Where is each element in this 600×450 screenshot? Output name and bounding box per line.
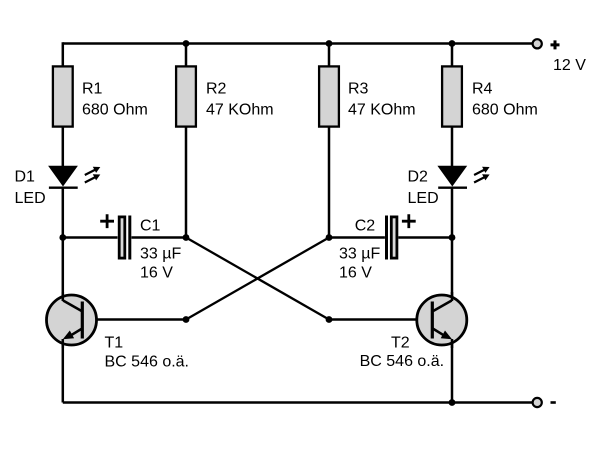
svg-text:33 µF: 33 µF (140, 246, 181, 263)
svg-text:LED: LED (408, 190, 439, 207)
capacitor C2 (339, 214, 416, 281)
node R3 bottom junction (326, 234, 333, 241)
resistor R2 (176, 66, 273, 126)
svg-text:C1: C1 (140, 218, 161, 235)
svg-text:R4: R4 (472, 81, 493, 98)
svg-text:R2: R2 (206, 81, 227, 98)
node top R4 junction (449, 40, 456, 47)
terminal minus (533, 398, 556, 407)
svg-text:R3: R3 (348, 81, 369, 98)
svg-text:D2: D2 (408, 168, 429, 185)
LED D2 (408, 166, 490, 207)
svg-text:LED: LED (15, 190, 46, 207)
resistor R3 (319, 66, 415, 126)
wire cross coupling R2 to T2 base (186, 238, 329, 320)
wire right branch vertical (451, 44, 454, 403)
node bottom T2 emitter junction (449, 399, 456, 406)
svg-text:47 KOhm: 47 KOhm (206, 102, 274, 119)
svg-text:16 V: 16 V (339, 265, 372, 282)
wire bottom rail (63, 401, 532, 404)
wire R2 branch vertical (185, 44, 188, 238)
svg-text:T1: T1 (105, 335, 124, 352)
resistor R1 (53, 66, 148, 126)
terminal plus 12V (533, 39, 587, 74)
svg-text:16 V: 16 V (140, 265, 173, 282)
node T1 base junction (183, 316, 190, 323)
wire C2 horizontal (329, 236, 452, 239)
transistor T1 (47, 292, 190, 371)
svg-text:C2: C2 (355, 218, 376, 235)
wire top rail (63, 42, 532, 45)
node R2 bottom junction (183, 234, 190, 241)
node right cap junction (449, 234, 456, 241)
svg-text:D1: D1 (15, 168, 36, 185)
node left cap junction (59, 234, 66, 241)
wire C1 horizontal (63, 236, 186, 239)
wire T1 base (84, 318, 187, 321)
transistor T2 (360, 292, 467, 370)
svg-text:680 Ohm: 680 Ohm (472, 102, 538, 119)
svg-text:680 Ohm: 680 Ohm (82, 102, 148, 119)
node top R2 junction (183, 40, 190, 47)
node T2 base junction (326, 316, 333, 323)
svg-text:BC 546 o.ä.: BC 546 o.ä. (105, 354, 190, 371)
svg-text:33 µF: 33 µF (339, 246, 380, 263)
svg-text:12 V: 12 V (553, 57, 586, 74)
node top R3 junction (326, 40, 333, 47)
wire cross coupling R3 to T1 base (186, 238, 329, 320)
svg-text:47 KOhm: 47 KOhm (348, 102, 416, 119)
wire left branch vertical (62, 42, 65, 402)
wire T2 base (329, 318, 431, 321)
resistor R4 (442, 66, 538, 126)
svg-text:R1: R1 (82, 81, 103, 98)
svg-text:T2: T2 (391, 335, 410, 352)
LED D1 (15, 166, 101, 207)
capacitor C1 (100, 214, 181, 281)
svg-text:BC 546 o.ä.: BC 546 o.ä. (360, 353, 445, 370)
wire R3 branch vertical (328, 44, 331, 238)
